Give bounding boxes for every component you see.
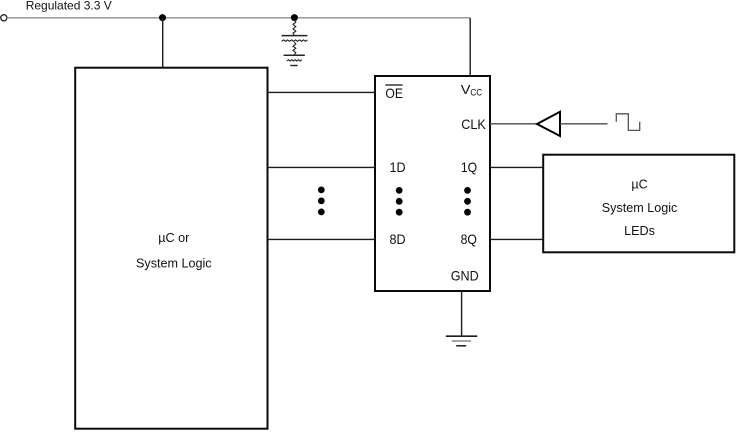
wire: clock buffer input lead: [560, 123, 608, 125]
wire: OE to left box: [268, 91, 376, 93]
svg-text:µC: µC: [631, 177, 647, 191]
clock pulse waveform symbol: [616, 114, 639, 131]
capacitor C1 top plate: [282, 35, 308, 37]
wire: capacitor top lead: [293, 20, 296, 36]
svg-text:CC: CC: [470, 88, 482, 99]
svg-text:V: V: [461, 82, 471, 97]
wire: CLK to clock buffer: [490, 123, 537, 125]
svg-text:System Logic: System Logic: [602, 201, 678, 215]
capacitor C1 bottom plate: [282, 40, 308, 41]
svg-text:8Q: 8Q: [461, 231, 477, 247]
svg-text:Regulated 3.3 V: Regulated 3.3 V: [26, 0, 112, 12]
block: right box µC / System Logic / LEDs: [543, 155, 734, 253]
svg-text:CLK: CLK: [461, 116, 486, 132]
wire: drop from rail to left box: [162, 18, 164, 67]
block: left box µC or System Logic: [75, 68, 267, 429]
svg-text:System Logic: System Logic: [136, 256, 212, 270]
ellipsis dots: data bus between boxes: [318, 187, 325, 216]
node: junction above bypass capacitor: [291, 14, 298, 21]
svg-text:OE: OE: [385, 85, 403, 101]
svg-text:GND: GND: [451, 267, 479, 283]
svg-text:1D: 1D: [390, 159, 406, 175]
ground (bypass capacitor): [284, 55, 305, 65]
node: junction above left box: [159, 14, 166, 21]
ellipsis dots: Q column inside IC: [464, 187, 471, 216]
wire: 8D to left box: [268, 238, 376, 240]
terminal circle (supply input): [1, 15, 7, 21]
svg-text:1Q: 1Q: [461, 159, 477, 175]
svg-text:LEDs: LEDs: [624, 224, 655, 238]
wire: 1Q to right box: [490, 166, 543, 168]
wire: 8Q to right box: [490, 238, 543, 240]
ellipsis dots: D column inside IC: [396, 187, 403, 216]
wire: rail drop to VCC pin: [469, 18, 471, 76]
svg-text:µC or: µC or: [158, 231, 189, 245]
ground (IC GND): [446, 336, 477, 346]
IC U1: octal register: [375, 76, 490, 291]
wire: GND pin to ground: [461, 291, 463, 336]
svg-text:8D: 8D: [390, 231, 406, 247]
clock buffer (left-pointing triangle): [537, 112, 560, 136]
wire: 1D to left box: [268, 166, 376, 168]
wire: capacitor bottom lead: [293, 42, 296, 55]
wire: top power rail: [7, 17, 470, 19]
